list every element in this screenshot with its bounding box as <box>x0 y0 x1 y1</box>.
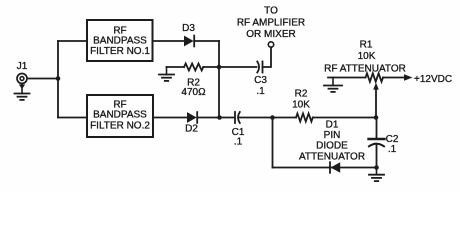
wire J1 to trunk <box>28 78 59 80</box>
arrow to +12VDC <box>404 74 413 80</box>
svg-text:10K: 10K <box>358 51 376 62</box>
svg-text:J1: J1 <box>17 61 28 72</box>
svg-text:D1: D1 <box>326 120 339 131</box>
wire R2 to wiper node <box>313 117 376 119</box>
capacitor C3 <box>257 62 262 73</box>
wire D3 to corner <box>194 40 219 42</box>
diode D3 <box>184 36 194 47</box>
wire trunk to filter 1 <box>58 40 87 42</box>
node output terminal <box>268 42 273 47</box>
wire ground to R2 <box>167 66 185 68</box>
svg-text:OR MIXER: OR MIXER <box>246 29 295 40</box>
node J1-trunk junction <box>56 76 61 81</box>
R2 value label <box>181 78 206 98</box>
svg-text:R1: R1 <box>360 40 373 51</box>
ground (J1) <box>15 84 30 100</box>
wire R2 to node <box>203 66 219 68</box>
wire C1 to node <box>239 117 273 119</box>
svg-text:D3: D3 <box>182 23 195 34</box>
svg-text:RF ATTENUATOR: RF ATTENUATOR <box>324 64 406 75</box>
C1 label <box>232 127 245 148</box>
svg-text:470Ω: 470Ω <box>181 87 206 98</box>
svg-text:.1: .1 <box>256 86 265 97</box>
wire C3 up to output terminal <box>263 47 272 67</box>
ground (R1 left) <box>324 78 342 92</box>
R2 10K label <box>292 89 310 111</box>
svg-text:D2: D2 <box>185 124 198 135</box>
node R2/wiper/C2 junction <box>374 115 379 120</box>
R1 labels <box>324 40 406 75</box>
svg-text:10K: 10K <box>292 100 310 111</box>
resistor R2 10K <box>296 114 313 122</box>
node C1/R2 junction <box>270 115 275 120</box>
svg-text:BANDPASS: BANDPASS <box>93 36 147 47</box>
svg-text:FILTER NO.1: FILTER NO.1 <box>90 46 150 57</box>
D1 labels <box>299 120 365 163</box>
wire corner down to node <box>218 41 220 118</box>
svg-text:C3: C3 <box>254 75 267 86</box>
C2 label <box>386 134 399 155</box>
svg-text:ATTENUATOR: ATTENUATOR <box>299 152 365 163</box>
svg-text:R2: R2 <box>295 89 308 100</box>
wire node to C3 <box>219 66 257 68</box>
wire C2 down to bottom node <box>376 144 378 168</box>
wire R1 left to ground <box>328 77 366 79</box>
block RF bandpass filter no.2 <box>87 95 153 137</box>
wire node to R2 10K <box>273 117 297 119</box>
wire R1 right to supply arrow <box>383 77 404 79</box>
svg-text:+12VDC: +12VDC <box>414 74 452 85</box>
capacitor C2 <box>369 139 385 146</box>
svg-text:RF AMPLIFIER: RF AMPLIFIER <box>237 18 305 29</box>
ground (R2 470) <box>159 67 174 81</box>
R1 wiper arrow <box>373 83 379 118</box>
svg-text:BANDPASS: BANDPASS <box>93 110 147 121</box>
potentiometer R1 <box>366 73 383 81</box>
wire attenuator loop bottom <box>273 167 378 169</box>
capacitor C1 <box>235 112 240 123</box>
diode D1 <box>330 162 340 173</box>
wire trunk to filter 2 <box>58 117 87 119</box>
resistor R2 470 <box>184 64 203 71</box>
block RF bandpass filter no.1 <box>87 20 153 61</box>
svg-text:.1: .1 <box>388 144 397 155</box>
wire filter1 to D3 <box>153 40 185 42</box>
svg-text:PIN: PIN <box>324 130 341 141</box>
svg-text:TO: TO <box>264 6 278 17</box>
node bottom junction <box>374 165 379 170</box>
node D3/R2/C3 junction <box>217 65 222 70</box>
node D2/C1 junction <box>217 115 222 120</box>
diode D2 <box>187 112 197 123</box>
wire C1 node down (attenuator loop left) <box>272 118 274 168</box>
svg-text:DIODE: DIODE <box>316 141 348 152</box>
connector J1 <box>17 74 27 84</box>
wire trunk vertical <box>57 41 59 118</box>
label TO RF AMPLIFIER OR MIXER <box>237 6 305 41</box>
wire filter2 to D2 <box>153 117 187 119</box>
ground (C2) <box>369 168 384 182</box>
C3 label <box>254 75 267 97</box>
wire D2 to node <box>197 117 233 119</box>
svg-text:FILTER NO.2: FILTER NO.2 <box>90 121 150 132</box>
wire wiper node down to C2 <box>376 118 378 139</box>
svg-text:.1: .1 <box>234 137 243 148</box>
